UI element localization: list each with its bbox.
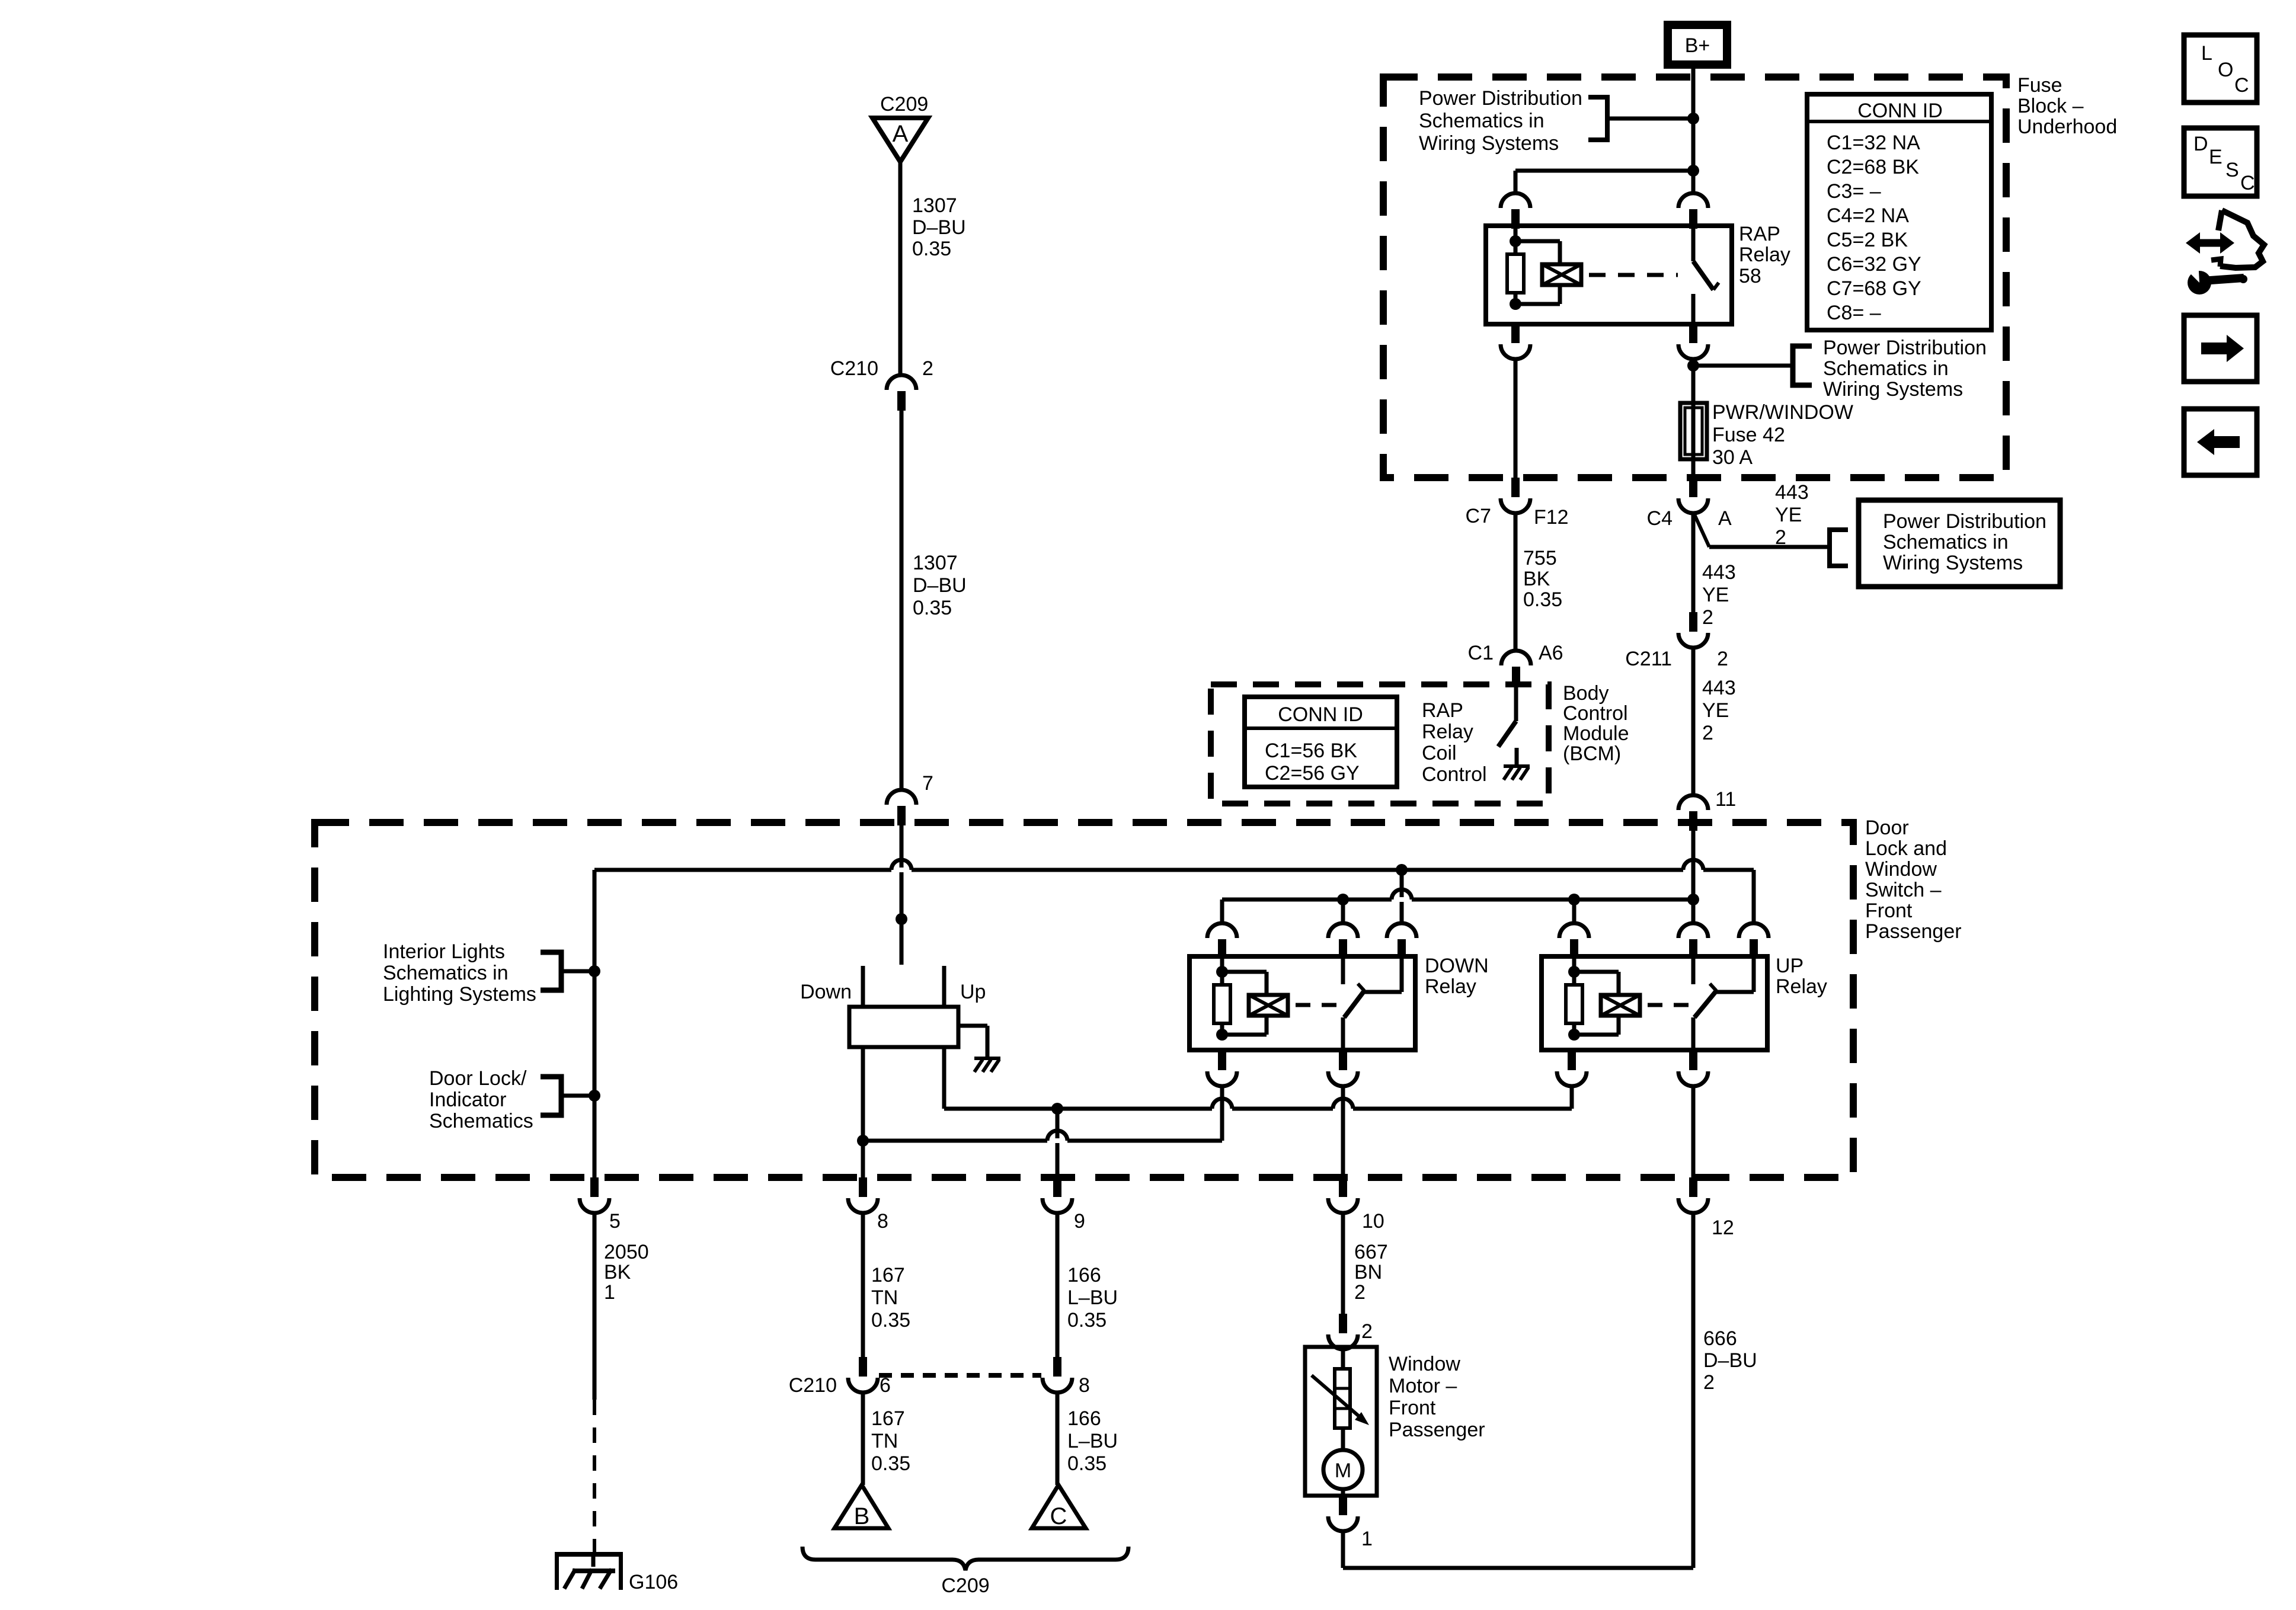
svg-text:Window: Window xyxy=(1865,858,1937,881)
svg-text:G106: G106 xyxy=(629,1571,678,1593)
svg-text:166: 166 xyxy=(1067,1407,1101,1430)
svg-text:Interior Lights: Interior Lights xyxy=(383,940,505,963)
svg-text:PWR/WINDOW: PWR/WINDOW xyxy=(1712,401,1853,424)
svg-text:C210: C210 xyxy=(789,1374,837,1397)
svg-text:443: 443 xyxy=(1775,481,1809,504)
svg-text:Schematics in: Schematics in xyxy=(1883,531,2009,553)
svg-text:166: 166 xyxy=(1067,1264,1101,1286)
svg-text:Coil: Coil xyxy=(1422,742,1457,764)
svg-text:2: 2 xyxy=(1361,1320,1373,1343)
svg-text:L–BU: L–BU xyxy=(1067,1286,1118,1309)
svg-text:C4=2 NA: C4=2 NA xyxy=(1827,204,1909,227)
svg-text:Block –: Block – xyxy=(2017,95,2084,117)
svg-text:YE: YE xyxy=(1702,584,1729,606)
svg-text:YE: YE xyxy=(1775,504,1802,526)
svg-text:0.35: 0.35 xyxy=(912,238,951,260)
svg-text:F12: F12 xyxy=(1534,506,1569,529)
svg-text:B: B xyxy=(854,1503,870,1529)
svg-text:2: 2 xyxy=(1717,648,1728,670)
svg-text:0.35: 0.35 xyxy=(1067,1309,1107,1331)
svg-text:C211: C211 xyxy=(1625,648,1672,670)
svg-text:C8= –: C8= – xyxy=(1827,302,1881,324)
svg-text:Power Distribution: Power Distribution xyxy=(1823,337,1987,359)
svg-text:Relay: Relay xyxy=(1739,244,1790,266)
svg-text:BK: BK xyxy=(604,1261,631,1283)
svg-text:Passenger: Passenger xyxy=(1389,1419,1485,1441)
svg-text:443: 443 xyxy=(1702,677,1736,699)
svg-text:Door Lock/: Door Lock/ xyxy=(429,1067,527,1090)
svg-text:1307: 1307 xyxy=(912,194,957,217)
svg-text:Control: Control xyxy=(1563,702,1628,725)
svg-text:YE: YE xyxy=(1702,699,1729,722)
svg-text:TN: TN xyxy=(871,1286,898,1309)
svg-text:Relay: Relay xyxy=(1422,721,1473,743)
svg-text:Fuse: Fuse xyxy=(2017,74,2062,97)
svg-text:C7: C7 xyxy=(1466,505,1491,527)
svg-text:0.35: 0.35 xyxy=(871,1452,910,1475)
svg-text:2: 2 xyxy=(922,357,933,380)
svg-text:0.35: 0.35 xyxy=(1523,588,1562,611)
svg-text:11: 11 xyxy=(1715,788,1736,811)
svg-text:167: 167 xyxy=(871,1407,905,1430)
svg-text:Power Distribution: Power Distribution xyxy=(1883,510,2046,533)
svg-text:M: M xyxy=(1335,1459,1351,1482)
svg-text:2: 2 xyxy=(1702,722,1713,744)
svg-text:Window: Window xyxy=(1389,1353,1460,1375)
svg-text:C: C xyxy=(2240,172,2255,194)
svg-text:Body: Body xyxy=(1563,682,1609,705)
svg-text:Front: Front xyxy=(1389,1397,1436,1419)
svg-text:666: 666 xyxy=(1703,1327,1737,1350)
svg-text:7: 7 xyxy=(922,772,933,795)
svg-text:D–BU: D–BU xyxy=(912,216,966,239)
svg-text:12: 12 xyxy=(1712,1217,1734,1239)
svg-text:0.35: 0.35 xyxy=(871,1309,910,1331)
svg-text:A: A xyxy=(893,121,909,147)
svg-text:Schematics in: Schematics in xyxy=(1823,357,1949,380)
svg-text:443: 443 xyxy=(1702,561,1736,584)
svg-text:Indicator: Indicator xyxy=(429,1089,506,1111)
svg-text:D: D xyxy=(2193,133,2208,155)
svg-text:1: 1 xyxy=(1361,1528,1373,1550)
svg-text:10: 10 xyxy=(1362,1210,1384,1233)
svg-text:Underhood: Underhood xyxy=(2017,116,2117,138)
svg-text:BK: BK xyxy=(1523,568,1550,590)
svg-text:O: O xyxy=(2218,59,2233,81)
svg-text:C1=56 BK: C1=56 BK xyxy=(1265,740,1357,762)
svg-text:Lock and: Lock and xyxy=(1865,837,1947,860)
svg-text:C210: C210 xyxy=(830,357,878,380)
svg-text:C4: C4 xyxy=(1647,507,1673,530)
svg-text:Schematics: Schematics xyxy=(429,1110,533,1132)
svg-text:Door: Door xyxy=(1865,817,1909,839)
svg-text:A: A xyxy=(1718,507,1732,530)
svg-text:C1: C1 xyxy=(1468,642,1494,664)
svg-text:D–BU: D–BU xyxy=(913,574,967,597)
svg-text:Module: Module xyxy=(1563,722,1629,745)
svg-text:0.35: 0.35 xyxy=(913,597,952,619)
svg-text:L: L xyxy=(2201,42,2212,65)
svg-text:1: 1 xyxy=(604,1281,615,1304)
svg-text:C2=68 BK: C2=68 BK xyxy=(1827,156,1919,178)
svg-text:L–BU: L–BU xyxy=(1067,1430,1118,1452)
svg-text:5: 5 xyxy=(609,1210,621,1233)
svg-text:Wiring Systems: Wiring Systems xyxy=(1883,552,2023,574)
svg-text:1307: 1307 xyxy=(913,552,958,574)
svg-text:Control: Control xyxy=(1422,763,1487,786)
svg-text:CONN ID: CONN ID xyxy=(1278,703,1363,726)
svg-text:2: 2 xyxy=(1703,1371,1715,1394)
svg-text:C7=68 GY: C7=68 GY xyxy=(1827,277,1921,300)
svg-text:CONN ID: CONN ID xyxy=(1857,100,1943,122)
svg-text:Lighting Systems: Lighting Systems xyxy=(383,983,536,1006)
svg-text:DOWN: DOWN xyxy=(1425,955,1489,977)
svg-text:C: C xyxy=(1050,1503,1067,1529)
svg-text:Wiring Systems: Wiring Systems xyxy=(1419,132,1559,155)
svg-text:E: E xyxy=(2209,146,2223,168)
svg-text:(BCM): (BCM) xyxy=(1563,742,1621,765)
svg-text:UP: UP xyxy=(1776,955,1803,977)
svg-text:667: 667 xyxy=(1354,1241,1388,1263)
svg-text:30 A: 30 A xyxy=(1712,446,1753,469)
svg-text:C5=2 BK: C5=2 BK xyxy=(1827,229,1908,251)
svg-text:58: 58 xyxy=(1739,265,1761,287)
svg-text:9: 9 xyxy=(1074,1210,1085,1233)
svg-text:Relay: Relay xyxy=(1776,975,1827,998)
svg-text:8: 8 xyxy=(1079,1374,1090,1397)
svg-text:A6: A6 xyxy=(1539,642,1563,664)
svg-text:C: C xyxy=(2234,74,2249,97)
svg-text:2: 2 xyxy=(1354,1281,1366,1304)
svg-text:C209: C209 xyxy=(941,1574,989,1597)
svg-text:Motor –: Motor – xyxy=(1389,1375,1457,1397)
svg-text:2: 2 xyxy=(1702,606,1713,629)
svg-text:RAP: RAP xyxy=(1739,223,1780,245)
svg-text:Wiring Systems: Wiring Systems xyxy=(1823,378,1963,401)
svg-text:2050: 2050 xyxy=(604,1241,649,1263)
svg-text:Front: Front xyxy=(1865,900,1913,922)
svg-text:Power Distribution: Power Distribution xyxy=(1419,87,1582,110)
svg-text:RAP: RAP xyxy=(1422,699,1463,722)
svg-text:C209: C209 xyxy=(880,93,928,116)
svg-text:C1=32 NA: C1=32 NA xyxy=(1827,132,1920,154)
svg-text:0.35: 0.35 xyxy=(1067,1452,1107,1475)
svg-text:Up: Up xyxy=(960,981,986,1003)
svg-text:Switch –: Switch – xyxy=(1865,879,1942,901)
svg-text:167: 167 xyxy=(871,1264,905,1286)
svg-text:C3= –: C3= – xyxy=(1827,180,1881,203)
svg-text:Passenger: Passenger xyxy=(1865,920,1962,943)
svg-text:C2=56 GY: C2=56 GY xyxy=(1265,762,1360,785)
svg-text:Schematics in: Schematics in xyxy=(1419,110,1544,132)
svg-text:Schematics in: Schematics in xyxy=(383,962,509,984)
svg-text:BN: BN xyxy=(1354,1261,1382,1283)
svg-text:Fuse 42: Fuse 42 xyxy=(1712,424,1785,446)
svg-text:B+: B+ xyxy=(1685,34,1710,57)
svg-text:Down: Down xyxy=(800,981,852,1003)
svg-text:D–BU: D–BU xyxy=(1703,1349,1757,1372)
svg-text:8: 8 xyxy=(877,1210,888,1233)
svg-text:S: S xyxy=(2225,159,2239,181)
svg-text:755: 755 xyxy=(1523,547,1557,569)
svg-text:TN: TN xyxy=(871,1430,898,1452)
svg-text:Relay: Relay xyxy=(1425,975,1476,998)
svg-text:C6=32 GY: C6=32 GY xyxy=(1827,253,1921,276)
